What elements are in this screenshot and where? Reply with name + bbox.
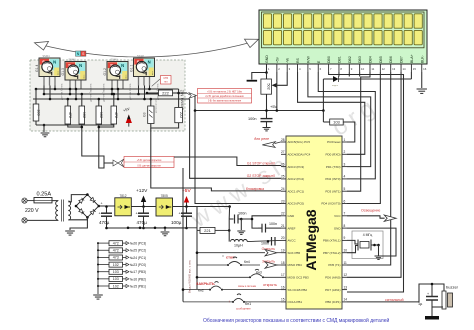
wire lcd-chip xyxy=(318,72,375,179)
pointer to info box xyxy=(152,79,160,86)
svg-text:0 В: без магнитного включения: 0 В: без магнитного включения xyxy=(208,101,242,103)
svg-text:15: 15 xyxy=(413,67,417,71)
svg-text:-Ve: -Ve xyxy=(286,58,290,63)
svg-text:103: 103 xyxy=(36,109,40,115)
svg-text:ADC4(SDA) PC4: ADC4(SDA) PC4 xyxy=(288,153,311,157)
svg-text:7812: 7812 xyxy=(119,194,126,198)
svg-text:472: 472 xyxy=(114,112,118,118)
svg-text:DB0: DB0 xyxy=(327,56,331,63)
LCD pin stubs xyxy=(266,64,268,72)
svg-text:9: 9 xyxy=(344,236,346,240)
svg-text:26: 26 xyxy=(281,162,285,166)
resistor 103 reset xyxy=(322,111,324,123)
svg-text:PB6 (XTAL1): PB6 (XTAL1) xyxy=(323,239,340,243)
hall sensor G1.4 xyxy=(35,55,60,85)
svg-text:№24 (PC1): №24 (PC1) xyxy=(130,256,146,260)
svg-text:PD0 (RXD): PD0 (RXD) xyxy=(325,153,340,157)
svg-text:GND: GND xyxy=(265,55,269,63)
svg-text:+5v: +5v xyxy=(275,57,279,63)
svg-text:23: 23 xyxy=(281,199,285,203)
svg-text:сообщение: сообщение xyxy=(236,307,251,311)
svg-text:100n: 100n xyxy=(238,212,246,216)
bridge ground xyxy=(70,217,87,230)
bridge rectifier xyxy=(68,195,87,202)
svg-text:102: 102 xyxy=(113,284,119,288)
svg-text:G1.1: G1.1 xyxy=(130,65,134,72)
svg-text:G1.4: G1.4 xyxy=(35,65,39,72)
wire pot top to pin1 junction xyxy=(266,73,268,80)
legend arrow xyxy=(189,93,197,99)
svg-text:N: N xyxy=(121,63,124,68)
svg-text:датчик Холла: датчик Холла xyxy=(60,83,64,100)
ladder resistor 103 xyxy=(98,271,109,273)
+5V arrow xyxy=(173,206,197,208)
svg-text:№25 (PC2): №25 (PC2) xyxy=(130,249,146,253)
svg-text:6: 6 xyxy=(344,199,346,203)
svg-text:13: 13 xyxy=(344,285,348,289)
wire +5 to 221 xyxy=(196,207,198,231)
svg-text:DB5: DB5 xyxy=(379,56,383,63)
wire LCD pin2 to rail xyxy=(276,72,278,111)
svg-text:ADC1 (PC1): ADC1 (PC1) xyxy=(288,189,305,193)
LCD cells xyxy=(263,14,422,45)
svg-text:16: 16 xyxy=(281,285,285,289)
svg-text:№15 (PB1): №15 (PB1) xyxy=(130,284,146,288)
bus wires xyxy=(128,227,197,229)
left bus verticals xyxy=(182,168,184,302)
resistor 222 horizontal xyxy=(147,92,158,94)
svg-text:PD4 (XCK/T0): PD4 (XCK/T0) xyxy=(321,202,340,206)
svg-text:10: 10 xyxy=(361,67,365,71)
svg-text:ADC0 (PC0): ADC0 (PC0) xyxy=(288,202,305,206)
svg-text:102: 102 xyxy=(113,263,119,267)
sensor bus wires xyxy=(36,88,179,90)
wire to chip pin 25 xyxy=(190,99,281,178)
svg-text:472: 472 xyxy=(113,241,119,245)
wire to chip pin 26 xyxy=(174,157,281,166)
svg-text:+5 В: нет магнита, 2 В: НЕТ 0,: +5 В: нет магнита, 2 В: НЕТ 0,8м xyxy=(207,91,242,93)
svg-text:+12V: +12V xyxy=(136,188,148,194)
svg-text:28: 28 xyxy=(281,138,285,142)
svg-text:R/W: R/W xyxy=(306,56,310,64)
hall sensor G1.3 xyxy=(61,59,86,89)
svg-text:Кн3: Кн3 xyxy=(256,271,262,275)
svg-text:для реле: для реле xyxy=(254,137,269,141)
svg-text:11: 11 xyxy=(344,261,348,265)
ground sensor board xyxy=(43,125,45,132)
svg-text:220 V: 220 V xyxy=(25,208,39,214)
wire lcd db7 xyxy=(347,72,401,277)
svg-text:ADC3 (PC3): ADC3 (PC3) xyxy=(288,165,305,169)
magnet on arc xyxy=(76,51,81,56)
svg-text:GND: GND xyxy=(334,226,342,230)
svg-text:470µ: 470µ xyxy=(137,220,148,225)
magnet travel arc xyxy=(40,42,254,58)
wire to chip pin 24 xyxy=(151,128,281,191)
svg-text:PD7 (AIN1): PD7 (AIN1) xyxy=(325,288,340,292)
wire lcd db0 xyxy=(329,72,404,292)
wire lcd-chip xyxy=(308,72,371,167)
ground rail caps xyxy=(107,227,187,229)
inductor 10uH xyxy=(228,230,230,241)
hall sensor G1.1 xyxy=(130,55,155,85)
svg-text:ADC2 (PC2): ADC2 (PC2) xyxy=(288,177,305,181)
wire lcd db6 xyxy=(347,72,391,265)
svg-text:24: 24 xyxy=(281,187,285,191)
cap 470u b xyxy=(142,205,145,208)
svg-text:PD2 (INT0): PD2 (INT0) xyxy=(325,177,340,181)
svg-text:14: 14 xyxy=(402,67,406,71)
svg-text:SS441: SS441 xyxy=(43,55,51,58)
ladder resistor 103 xyxy=(98,278,109,280)
svg-text:OC1A PB1: OC1A PB1 xyxy=(288,300,303,304)
svg-text:16: 16 xyxy=(423,67,427,71)
svg-text:PD6 (AIN0): PD6 (AIN0) xyxy=(325,276,340,280)
svg-text:8: 8 xyxy=(344,224,346,228)
svg-text:СТБ: СТБ xyxy=(163,77,168,80)
svg-text:Обозначения резисторов показан: Обозначения резисторов показаны в соотве… xyxy=(203,317,389,324)
svg-text:19: 19 xyxy=(281,249,285,253)
svg-text:Кн1: Кн1 xyxy=(245,302,251,306)
ladder bus xyxy=(97,243,99,294)
svg-text:GND: GND xyxy=(288,214,296,218)
svg-text:BLK-: BLK- xyxy=(420,54,424,63)
svg-text:AREF: AREF xyxy=(288,226,296,230)
btn Кн3 xyxy=(249,276,251,278)
svg-text:DB2: DB2 xyxy=(348,56,352,63)
wire lcd db1 xyxy=(338,72,340,77)
svg-text:+: + xyxy=(101,202,103,206)
svg-text:RS: RS xyxy=(296,57,300,63)
watermark xyxy=(186,92,384,234)
legend box 2 xyxy=(113,159,124,167)
+12V arrow xyxy=(132,206,156,208)
svg-text:SS OC1B PB2: SS OC1B PB2 xyxy=(288,288,308,292)
pot wiper from LCD pin3 xyxy=(272,83,277,87)
resistor 472 xyxy=(65,106,71,124)
svg-text:датчик Холла: датчик Холла xyxy=(128,83,132,100)
regulator 7812 xyxy=(115,198,132,216)
svg-text:MOSI OC2 PB3: MOSI OC2 PB3 xyxy=(288,276,310,280)
svg-text:502: 502 xyxy=(267,83,271,89)
svg-text:SS441: SS441 xyxy=(69,59,77,62)
wires to legend 2 xyxy=(82,135,113,163)
resistor 221 xyxy=(200,227,215,233)
svg-text:N: N xyxy=(79,63,82,68)
svg-text:ADC5(SCL) PC5: ADC5(SCL) PC5 xyxy=(288,140,311,144)
svg-text:2: 2 xyxy=(344,150,346,154)
svg-text:G1.2: G1.2 xyxy=(103,68,107,75)
chip pin rows xyxy=(281,141,286,143)
cap 100n vcc xyxy=(228,207,230,220)
regulator 7805 xyxy=(156,198,173,216)
svg-text:14: 14 xyxy=(344,298,348,302)
resistor 472 xyxy=(111,106,117,124)
cap 470u a xyxy=(106,207,108,214)
resistor 222 vertical xyxy=(175,108,183,123)
svg-text:102: 102 xyxy=(99,112,103,118)
svg-text:12: 12 xyxy=(344,273,348,277)
pin8 gnd wire xyxy=(347,228,396,256)
svg-text:PD5 (T1): PD5 (T1) xyxy=(328,263,340,267)
svg-text:G1.3: G1.3 xyxy=(61,68,65,75)
svg-text:Освещение: Освещение xyxy=(361,209,380,213)
svg-text:PC6/reset: PC6/reset xyxy=(327,140,341,144)
svg-text:5: 5 xyxy=(344,187,346,191)
svg-text:Кн4: Кн4 xyxy=(244,260,250,264)
svg-text:103: 103 xyxy=(113,270,119,274)
svg-text:№23 (PC0): №23 (PC0) xyxy=(130,263,146,267)
wire lcd db2 xyxy=(348,72,350,77)
svg-text:N: N xyxy=(148,60,151,65)
svg-text:подсв: подсв xyxy=(332,85,339,87)
svg-text:+: + xyxy=(427,292,429,296)
svg-text:3: 3 xyxy=(344,162,346,166)
svg-text:BLA+: BLA+ xyxy=(410,54,414,63)
svg-text:MISO PB4: MISO PB4 xyxy=(288,263,303,267)
svg-text:SS441: SS441 xyxy=(111,59,119,62)
svg-text:Вход в WD/НО вкл. с инв.: Вход в WD/НО вкл. с инв. xyxy=(188,260,192,293)
ground LCD pin1 xyxy=(252,64,267,80)
legend box 1 xyxy=(198,89,252,104)
svg-text:11: 11 xyxy=(371,67,374,71)
svg-text:100n: 100n xyxy=(269,222,277,226)
ground buzzer xyxy=(425,316,439,320)
svg-text:27: 27 xyxy=(281,150,285,154)
ladder resistor 472 xyxy=(98,242,109,244)
svg-text:12: 12 xyxy=(382,67,386,71)
svg-text:=: = xyxy=(222,254,224,258)
svg-text:4 МГц: 4 МГц xyxy=(363,233,372,237)
svg-text:4: 4 xyxy=(344,175,346,179)
wire lcd db5 xyxy=(347,72,380,204)
svg-text:103: 103 xyxy=(333,120,340,125)
svg-text:10µH: 10µH xyxy=(234,244,243,248)
svg-text:+5 В: датчик открытия: +5 В: датчик открытия xyxy=(137,159,162,162)
crystal 4MHz xyxy=(352,231,383,259)
svg-text:10: 10 xyxy=(344,249,348,253)
svg-text:DB4: DB4 xyxy=(369,56,373,63)
svg-text:103: 103 xyxy=(113,277,119,281)
ladder resistor 102 xyxy=(98,285,109,287)
svg-text:221: 221 xyxy=(204,228,211,233)
+5V rail top xyxy=(195,96,281,204)
ladder resistor 102 xyxy=(98,264,109,266)
cap 100u xyxy=(185,205,188,208)
wire lcd-chip xyxy=(298,72,365,154)
svg-text:0.25A: 0.25A xyxy=(37,192,52,198)
hall sensor G1.2 xyxy=(103,59,128,89)
svg-text:20: 20 xyxy=(281,236,285,240)
svg-text:100µ: 100µ xyxy=(171,220,182,225)
svg-text:7805: 7805 xyxy=(161,194,168,198)
svg-text:222: 222 xyxy=(179,112,183,118)
svg-text:7: 7 xyxy=(344,212,346,216)
terminal bottom xyxy=(22,218,27,223)
sensor board box xyxy=(30,60,185,131)
svg-text:25: 25 xyxy=(281,175,285,179)
svg-text:473: 473 xyxy=(113,256,119,260)
LCD module xyxy=(259,10,427,64)
svg-text:13: 13 xyxy=(392,67,396,71)
svg-text:15: 15 xyxy=(281,298,285,302)
svg-text:блокировка: блокировка xyxy=(246,187,264,191)
svg-text:DB6: DB6 xyxy=(389,56,393,63)
svg-text:G1 STOP открыт0: G1 STOP открыт0 xyxy=(247,161,275,165)
svg-text:SCK PB5: SCK PB5 xyxy=(288,251,301,255)
+5V arrow sensor board xyxy=(128,122,130,127)
svg-text:DB1: DB1 xyxy=(337,56,341,63)
svg-text:№17 (PB3): №17 (PB3) xyxy=(130,270,146,274)
wires resistors to buses xyxy=(35,89,37,104)
svg-text:ЗАКРЫТЬ: ЗАКРЫТЬ xyxy=(196,282,215,286)
svg-text:датчик штока: датчик штока xyxy=(156,99,158,113)
resistor 102 xyxy=(79,106,85,124)
contrast pot 502 xyxy=(261,79,272,94)
svg-text:DB7: DB7 xyxy=(400,56,404,63)
svg-text:PB0 (ICP1): PB0 (ICP1) xyxy=(325,300,340,304)
ladder resistor 473 xyxy=(98,256,109,258)
terminal top xyxy=(22,198,27,203)
svg-text:№16 (PB2): №16 (PB2) xyxy=(130,277,146,281)
svg-text:G2 STOP закрыт0: G2 STOP закрыт0 xyxy=(247,174,275,178)
svg-text:DB3: DB3 xyxy=(358,56,362,63)
svg-text:связь и система: связь и система xyxy=(238,285,257,288)
svg-text:0 В: датчик закрытия: 0 В: датчик закрытия xyxy=(137,164,161,167)
svg-text:buzzer: buzzer xyxy=(446,285,459,290)
svg-text:222: 222 xyxy=(162,91,169,96)
pin22 gnd wire xyxy=(252,216,281,219)
svg-text:ATMega8: ATMega8 xyxy=(303,209,319,270)
svg-text:22: 22 xyxy=(281,212,285,216)
wire G3 and 222 xyxy=(150,99,152,106)
dc rail xyxy=(99,205,115,207)
resistor 102 xyxy=(96,106,102,124)
svg-text:G3: G3 xyxy=(142,112,146,117)
wire lcd-chip xyxy=(347,72,370,191)
svg-text:472: 472 xyxy=(113,249,119,253)
svg-text:открыть: открыть xyxy=(263,283,277,287)
wire pot to rail xyxy=(266,94,268,118)
small red info box xyxy=(161,76,172,85)
svg-text:472: 472 xyxy=(68,112,72,118)
svg-text:17: 17 xyxy=(281,273,285,277)
backlight diode xyxy=(322,79,324,111)
svg-text:100n: 100n xyxy=(248,117,256,121)
transformer xyxy=(52,200,58,202)
svg-text:PD3 (INT1): PD3 (INT1) xyxy=(325,189,340,193)
svg-text:1: 1 xyxy=(344,138,346,142)
svg-text:PB7 (XTAL2): PB7 (XTAL2) xyxy=(323,251,340,255)
svg-text:470µ: 470µ xyxy=(99,220,110,225)
svg-text:102: 102 xyxy=(82,112,86,118)
svg-text:ткл: ткл xyxy=(164,81,168,84)
svg-text:VCC: VCC xyxy=(334,214,341,218)
resistor 103 xyxy=(33,104,39,121)
svg-text:21: 21 xyxy=(281,224,285,228)
svg-text:18: 18 xyxy=(281,261,285,265)
wire drops from sensors xyxy=(43,86,45,95)
svg-text:№26 (PC3): №26 (PC3) xyxy=(130,242,146,246)
svg-text:N: N xyxy=(53,60,56,65)
svg-text:PD1 (TXD): PD1 (TXD) xyxy=(326,165,341,169)
ATMega8 chip xyxy=(286,136,342,309)
opto transistor G3 xyxy=(148,106,154,124)
svg-text:AVCC: AVCC xyxy=(288,239,297,243)
ground LCD pin16 xyxy=(421,72,423,88)
svg-text:SS441: SS441 xyxy=(137,55,145,58)
ladder resistor 472 xyxy=(98,249,109,251)
wire lcd db3 xyxy=(359,72,361,77)
svg-text:2,2 В: датчик доработки отклон: 2,2 В: датчик доработки отклонения xyxy=(205,96,244,98)
svg-text:Кн2: Кн2 xyxy=(198,289,204,293)
